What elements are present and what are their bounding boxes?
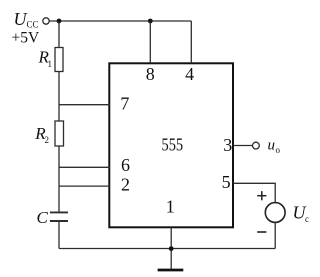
- wire: node to pin 2: [59, 185, 110, 187]
- wire: capacitor to bottom rail: [58, 222, 60, 249]
- wire: pin 1 to rail and ground: [170, 227, 172, 268]
- wire: pin 5 to source: [233, 183, 275, 202]
- svg-text:2: 2: [121, 175, 130, 195]
- capacitor C: [50, 212, 68, 221]
- resistor R1: [55, 48, 63, 72]
- svg-text:c: c: [305, 214, 309, 224]
- wire: pin 8 drop: [149, 21, 151, 63]
- svg-text:5: 5: [222, 172, 231, 192]
- wire: pin 3 output: [233, 145, 252, 147]
- svg-text:C: C: [37, 208, 49, 227]
- svg-text:u: u: [268, 137, 276, 153]
- svg-text:+5V: +5V: [12, 29, 40, 46]
- svg-text:7: 7: [120, 93, 129, 113]
- svg-text:6: 6: [121, 155, 130, 175]
- wire: bottom rail: [59, 248, 275, 250]
- svg-text:4: 4: [185, 64, 194, 84]
- svg-text:1: 1: [48, 59, 53, 69]
- svg-text:8: 8: [146, 64, 155, 84]
- wire: R1 to R2: [58, 72, 60, 122]
- wire: R2 to capacitor: [58, 146, 60, 212]
- wire: top rail Vcc: [49, 20, 191, 22]
- node junction at R1 top: [57, 19, 62, 24]
- svg-text:3: 3: [223, 135, 232, 155]
- wire: pin 4 drop: [190, 21, 192, 63]
- wire: node to pin 6: [59, 166, 110, 168]
- wire: node to pin 7: [59, 104, 110, 106]
- svg-text:1: 1: [166, 197, 175, 217]
- label + polarity: [257, 191, 266, 200]
- source Uc (circle): [265, 203, 285, 223]
- node junction at ground: [169, 246, 174, 251]
- wire: source to bottom rail: [274, 222, 276, 248]
- label - polarity: [257, 231, 266, 233]
- ground: [158, 269, 184, 272]
- svg-text:2: 2: [45, 135, 50, 145]
- wire: rail to R1: [58, 21, 60, 48]
- node junction above pin 8: [148, 19, 153, 24]
- svg-text:U: U: [14, 9, 28, 29]
- svg-text:o: o: [276, 145, 281, 155]
- terminal Ucc (open circle): [43, 18, 49, 24]
- svg-text:555: 555: [162, 134, 184, 155]
- terminal uo (open circle): [253, 142, 260, 149]
- IC 555 U1 body: [109, 63, 233, 227]
- svg-text:CC: CC: [27, 20, 39, 30]
- resistor R2: [55, 121, 64, 146]
